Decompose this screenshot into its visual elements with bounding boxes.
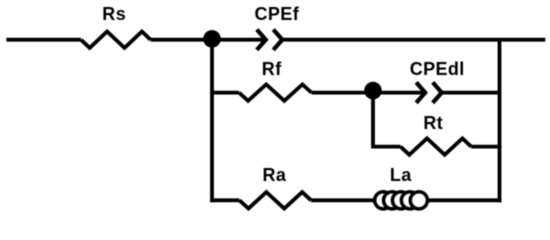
- svg-text:Rs: Rs: [102, 4, 126, 24]
- svg-text:CPEdl: CPEdl: [410, 59, 465, 79]
- svg-text:Rt: Rt: [423, 113, 443, 133]
- svg-text:La: La: [390, 165, 412, 185]
- svg-text:CPEf: CPEf: [255, 4, 300, 24]
- svg-text:Rf: Rf: [262, 59, 282, 79]
- svg-text:Ra: Ra: [263, 165, 287, 185]
